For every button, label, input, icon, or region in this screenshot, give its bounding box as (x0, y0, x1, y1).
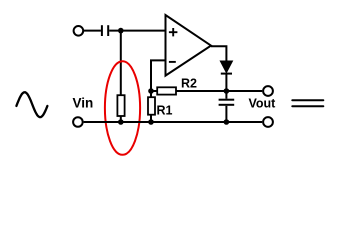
node: output junction (224, 88, 230, 94)
wire: - input to feedback node (151, 60, 165, 90)
svg-text:R2: R2 (181, 77, 197, 91)
DC symbol (double bar) (292, 100, 323, 106)
wire: bias resistor to ground rail (120, 116, 122, 122)
AC source symbol (sine wave) (16, 92, 47, 117)
wire: junction down to bias resistor (120, 31, 122, 96)
input terminal (top left) (74, 26, 84, 36)
svg-text:Vout: Vout (249, 97, 277, 111)
capacitor C1 (input coupling) (102, 25, 108, 36)
wire: diode to output node (225, 74, 227, 91)
op-amp U1 (166, 15, 212, 76)
resistor R2 (feedback) (151, 90, 157, 92)
wire: op-amp output to diode (211, 46, 226, 61)
wire: output rail to Vout terminal (226, 90, 262, 92)
pin - (inverting input mark) (169, 61, 176, 63)
resistor (bias, highlighted) (117, 95, 124, 116)
node: feedback junction (148, 88, 154, 94)
wire: bottom rail (84, 121, 263, 123)
node: bias resistor / bottom rail junction (118, 119, 124, 125)
node: R1 / bottom rail junction (148, 119, 154, 125)
node: capacitor / bottom rail junction (224, 119, 230, 125)
svg-text:R1: R1 (157, 104, 173, 118)
wire: capacitor to op-amp + input (109, 30, 164, 32)
resistor R1 (150, 91, 152, 97)
svg-text:Vin: Vin (73, 96, 94, 111)
diode D1 (221, 61, 232, 73)
highlight ellipse (red) around bias resistor (105, 61, 140, 155)
output terminal (bottom right) (263, 117, 273, 127)
output terminal (top right) (263, 86, 273, 96)
input terminal (bottom left) (73, 117, 83, 127)
wire: terminal to capacitor C1 (84, 30, 101, 32)
capacitor C2 (hold / smoothing) (225, 91, 227, 99)
node: junction at + input row (118, 28, 124, 34)
pin + (non-inverting input mark) (169, 28, 178, 36)
